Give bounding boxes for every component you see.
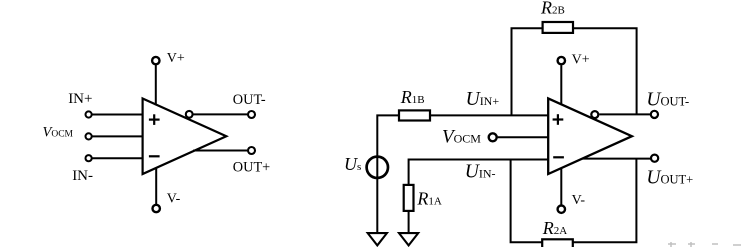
svg-text:R2A: R2A — [542, 218, 568, 238]
terminal UOUT- — [651, 111, 658, 118]
terminal VOCM — [86, 133, 92, 139]
wire R1A bottom lead — [408, 211, 410, 233]
inversion bubble OUT- (left) — [186, 111, 193, 118]
svg-text:Us: Us — [344, 154, 361, 174]
terminal V- (right) — [558, 206, 565, 213]
wire V- pin (right) — [560, 169, 562, 205]
svg-text:VOCM: VOCM — [442, 127, 481, 148]
op-amp A1 (left symbol triangle) — [143, 99, 227, 175]
resistor R1B — [399, 110, 430, 120]
svg-text:UOUT+: UOUT+ — [646, 168, 693, 189]
wire IN+ to A1 — [92, 114, 143, 116]
terminal VOCM (right) — [489, 133, 497, 141]
wire IN- to A1 — [92, 157, 143, 159]
svg-text:R1B: R1B — [400, 87, 425, 107]
terminal IN+ — [86, 111, 92, 117]
svg-text:IN+: IN+ — [68, 91, 92, 107]
wire feedback left vertical (node UIN+ to R2B) — [512, 28, 543, 115]
svg-text:UOUT-: UOUT- — [646, 90, 689, 111]
A1 plus marking — [149, 114, 160, 125]
svg-text:UIN-: UIN- — [465, 162, 496, 183]
ground (under R1A) — [399, 233, 418, 245]
terminal IN- — [86, 155, 92, 161]
wire VOCM to A1 — [92, 135, 143, 137]
wire feedback bottom-left vertical (node UIN- to R2A) — [511, 160, 543, 243]
svg-text:VOCM: VOCM — [43, 125, 74, 141]
resistor R2B — [543, 22, 573, 33]
wire OUT- (left) — [193, 113, 248, 115]
terminal OUT+ (left) — [248, 147, 255, 154]
wire R2A to OUT+ net — [573, 159, 637, 243]
wire OUT+ (right, node UOUT+) — [582, 158, 651, 160]
terminal OUT- (left) — [248, 111, 255, 118]
voltage source Us wire (top lead up to input rail) — [377, 115, 399, 233]
svg-text:IN-: IN- — [72, 168, 93, 184]
svg-text:R1A: R1A — [416, 189, 442, 209]
A1 minus marking — [149, 155, 160, 157]
svg-text:OUT-: OUT- — [233, 92, 266, 108]
cropped caption remnants (bottom right) — [668, 242, 741, 247]
svg-text:V+: V+ — [572, 52, 590, 67]
resistor R2A — [542, 239, 573, 247]
terminal V+ (left) — [152, 57, 159, 64]
wire OUT- (right, node UOUT-) — [599, 113, 650, 115]
svg-text:R2B: R2B — [540, 0, 565, 18]
wire OUT+ (left) — [193, 150, 248, 152]
terminal V+ (right) — [558, 57, 565, 64]
wire R2B to OUT- net — [573, 28, 637, 114]
terminal V- (left) — [153, 205, 160, 212]
wire R1A top lead (node UIN-) — [409, 160, 549, 185]
wire V+ pin (right) — [560, 65, 562, 105]
wire VOCM to A2 — [498, 136, 549, 138]
svg-text:OUT+: OUT+ — [233, 159, 270, 175]
wire V+ pin (left) — [155, 64, 157, 105]
op-amp A2 (right triangle) — [548, 98, 632, 174]
A2 minus marking — [553, 156, 564, 158]
terminal UOUT+ — [651, 155, 658, 162]
ground (under source) — [368, 233, 387, 245]
svg-text:V-: V- — [167, 192, 181, 207]
voltage source Us — [367, 157, 388, 178]
svg-text:V-: V- — [572, 193, 586, 208]
inversion bubble OUT- (right) — [591, 111, 598, 118]
svg-text:V+: V+ — [167, 51, 185, 66]
wire V- pin (left) — [155, 168, 157, 205]
A2 plus marking — [553, 114, 564, 125]
svg-text:UIN+: UIN+ — [466, 89, 500, 110]
resistor R1A — [404, 185, 414, 211]
wire R1B to A2 noninverting input (node UIN+) — [430, 114, 548, 116]
